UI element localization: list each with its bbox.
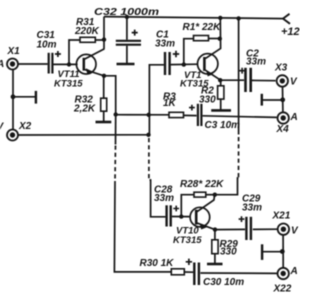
wire R28 left riser [181, 195, 194, 217]
wire X1 to X2 [12, 70, 14, 130]
svg-text:A: A [0, 59, 4, 70]
node collector VT11 [102, 37, 106, 41]
node emitter VT11 [102, 74, 106, 78]
wire VT1 collector riser [206, 18, 221, 59]
svg-text:C32 1000m: C32 1000m [94, 6, 159, 18]
ground bar R2 [211, 109, 231, 112]
wire R30 to C30 [184, 271, 193, 273]
svg-text:33m: 33m [154, 193, 174, 204]
resistor R32 [101, 98, 107, 111]
svg-text:C30 10m: C30 10m [203, 277, 244, 288]
capacitor C3 [189, 104, 201, 126]
svg-text:X22: X22 [273, 284, 292, 295]
wire R3 to C3 [184, 114, 197, 116]
wire emitter to R29 [214, 230, 216, 240]
transistor VT11 [76, 49, 104, 76]
wire C32 to ground [126, 46, 128, 64]
svg-text:220K: 220K [74, 26, 100, 37]
connector X2 [7, 130, 18, 141]
wire riser to R30 [114, 181, 171, 272]
wire R32 to ground [103, 111, 105, 121]
node X2 rail end [146, 133, 150, 137]
wire power riser dashed [238, 137, 240, 178]
svg-text:33m: 33m [155, 39, 175, 50]
wire riser to C28 [150, 180, 166, 217]
wire chassis stub X3 [262, 99, 283, 101]
svg-text:V: V [290, 77, 298, 88]
connector X1 [7, 59, 18, 70]
wire R31 to collector node [95, 39, 104, 41]
node X3 X4 chassis [280, 97, 285, 102]
svg-text:33m: 33m [242, 203, 262, 214]
svg-text:330: 330 [199, 95, 216, 106]
wire C30 to X22 [200, 272, 277, 274]
svg-text:A: A [290, 112, 298, 123]
wire C28 to base [172, 216, 190, 218]
svg-text:X1: X1 [7, 46, 21, 57]
node rail power riser [236, 16, 240, 20]
svg-text:KT315: KT315 [54, 78, 83, 89]
svg-text:V: V [291, 226, 299, 237]
wire chassis stub [13, 96, 36, 98]
connector X3 [277, 75, 288, 86]
capacitor C31 [49, 51, 61, 74]
node VT10 collector [213, 193, 217, 197]
wire power riser solid [238, 18, 240, 134]
node riser R3 wire [147, 113, 151, 117]
transistor VT10 [190, 195, 215, 230]
svg-text:X2: X2 [18, 121, 32, 132]
wire dashed riser to C28 [148, 138, 150, 180]
svg-text:R30 1K: R30 1K [140, 258, 175, 269]
wire R31 riser [69, 40, 80, 64]
wire R1 to collector node [209, 38, 221, 40]
wire R1 riser [184, 39, 194, 65]
resistor R28 [194, 192, 206, 197]
wire X3 to X4 [282, 87, 284, 112]
wire C1 to VT1 base [171, 63, 198, 65]
resistor R30 [171, 269, 184, 275]
wire VT11 collector riser [103, 17, 105, 49]
resistor R3 [169, 112, 184, 117]
resistor R31 [80, 37, 95, 42]
wire emitter node to R3 [116, 114, 169, 116]
node rail C32 [125, 15, 129, 19]
wire R29 to ground [214, 254, 216, 264]
node rail VT1 [218, 16, 222, 20]
ground bar C32 [117, 63, 135, 66]
wire C1 input corner riser [149, 65, 164, 135]
capacitor C2 [239, 68, 251, 92]
capacitor C28 [167, 205, 180, 226]
wire +12V rail [104, 17, 283, 19]
svg-text:1K: 1K [163, 98, 177, 109]
wire X1 to C31 [18, 63, 48, 65]
wire R28 right [206, 194, 215, 196]
connector X22 [278, 268, 289, 279]
svg-text:A: A [290, 266, 298, 277]
capacitor C1 [165, 51, 179, 75]
node VT1 base / R1 riser [182, 62, 186, 66]
svg-text:+12V: +12V [281, 26, 300, 38]
svg-text:C3 10m: C3 10m [205, 120, 241, 131]
ground bar near X1 [35, 91, 37, 104]
resistor R1 [194, 36, 209, 41]
svg-text:R28* 22K: R28* 22K [180, 179, 224, 190]
svg-text:10m: 10m [37, 40, 57, 51]
wire emitter to R32 [103, 76, 105, 98]
connector X21 [278, 224, 289, 235]
svg-text:KT315: KT315 [173, 235, 202, 246]
svg-text:X21: X21 [272, 211, 291, 222]
node base VT11 / R31 [67, 62, 71, 66]
node emitter output T [114, 112, 118, 116]
wire VT11 emitter output [104, 76, 116, 115]
resistor R29 [212, 240, 218, 254]
node emitter VT10 [213, 227, 217, 231]
wire C31 to VT11 base [54, 63, 78, 65]
svg-text:330: 330 [220, 247, 237, 258]
svg-text:V: V [0, 122, 5, 133]
wire X2 rail [18, 134, 149, 136]
wire emitter to C29 [215, 228, 245, 230]
ground bar R32 [96, 121, 112, 124]
wire emitter distribution riser dashed [114, 146, 117, 182]
wire rail to C32 [126, 17, 128, 40]
connector X4 [278, 112, 289, 123]
wire C2 to X3 [252, 79, 276, 81]
capacitor C30 [186, 259, 199, 285]
ground bar X3 X4 [261, 94, 263, 106]
svg-text:33m: 33m [246, 56, 266, 67]
ground bar R29 [207, 263, 223, 266]
capacitor C29 [239, 216, 251, 240]
ground bar X21 X22 [261, 244, 263, 260]
node VT10 base [179, 214, 183, 218]
node emitter VT1 [218, 78, 222, 82]
svg-text:2,2K: 2,2K [73, 104, 96, 115]
wire R2 to ground [220, 99, 222, 110]
wire chassis stub X21 [262, 251, 282, 253]
wire C29 to X21 [253, 228, 277, 230]
connector pin +12V arrow [283, 14, 290, 24]
wire X21 to X22 [282, 235, 284, 267]
svg-text:R1* 22K: R1* 22K [183, 22, 222, 33]
wire emitter to R2 [220, 80, 222, 86]
node collector VT1 [218, 37, 222, 41]
node X21 X22 chassis [280, 249, 285, 254]
svg-text:X3: X3 [274, 63, 288, 74]
wire emitter to C2 [220, 79, 244, 81]
capacitor C32 [116, 30, 141, 45]
transistor VT1 [198, 54, 221, 81]
svg-text:X4: X4 [276, 124, 290, 135]
node chassis stub [11, 94, 16, 99]
wire power riser to VT10 collector [215, 178, 239, 195]
wire C3 to X4 [203, 116, 277, 118]
resistor R2 [218, 86, 224, 99]
wire emitter distribution riser solid [115, 115, 117, 145]
